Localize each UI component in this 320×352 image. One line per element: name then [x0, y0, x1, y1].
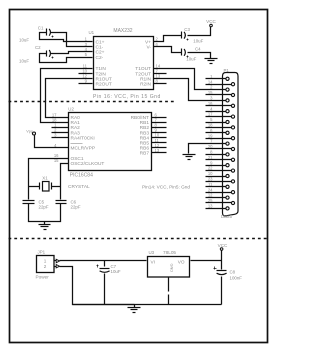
wire JP1 pin1 to regulator VI: [60, 260, 147, 262]
svg-text:RB2: RB2: [140, 125, 150, 131]
capacitor C1: [47, 29, 54, 38]
capacitor C6: [56, 201, 67, 204]
ground crystal: [39, 222, 51, 230]
C2 value label 10uF: [19, 59, 29, 64]
wire R2IN pin8 stub: [154, 83, 167, 85]
wires RB0-RB7 stubs: [152, 118, 167, 153]
svg-text:10uF: 10uF: [186, 57, 196, 62]
C3 value label 10uF: [193, 38, 203, 43]
U2 power note text: [142, 185, 190, 190]
wire crystal caps to ground: [29, 204, 61, 222]
capacitor C8: [214, 261, 227, 305]
svg-text:R2OUT: R2OUT: [96, 81, 112, 87]
crystal X1: [29, 182, 61, 192]
svg-text:10uF: 10uF: [193, 38, 203, 43]
svg-text:RA2: RA2: [71, 125, 81, 131]
JP1 designator label: [38, 250, 46, 255]
svg-text:22pF: 22pF: [71, 205, 81, 210]
svg-text:RA4/T0CKI: RA4/T0CKI: [71, 135, 95, 141]
svg-text:2: 2: [44, 264, 47, 269]
svg-text:R1IN: R1IN: [140, 76, 151, 82]
svg-text:C2+: C2+: [96, 50, 105, 56]
svg-text:25: 25: [208, 198, 213, 203]
wire RA3 stub: [52, 132, 69, 134]
svg-text:CRYSTAL: CRYSTAL: [68, 184, 90, 190]
JP1 pin 1 contact: [55, 259, 60, 262]
svg-text:PIC16C84: PIC16C84: [70, 173, 93, 179]
U3 designator label: [149, 250, 155, 255]
svg-text:X1: X1: [42, 176, 48, 181]
C6 designator label: [71, 200, 77, 205]
wire U3 GND to rail: [168, 277, 170, 305]
wire RA2 stub: [52, 127, 69, 129]
svg-text:12: 12: [208, 193, 213, 198]
VCC terminal bottom: [218, 243, 228, 250]
JP1 pin 2 contact: [55, 265, 60, 268]
wire DB25 pin 7 to ground: [189, 144, 227, 154]
wire C1 left lead to pin 1 loop: [40, 33, 93, 42]
wire T1OUT pin14 to DB25 pin 2: [154, 69, 227, 90]
svg-text:14: 14: [156, 63, 161, 68]
wire T1IN pin11 to RA1: [41, 69, 93, 123]
wire T2IN pin10 stub: [79, 73, 93, 75]
JP1 pin labels: [44, 259, 47, 269]
svg-text:19: 19: [208, 133, 213, 138]
svg-text:C7: C7: [111, 264, 117, 269]
svg-text:T1OUT: T1OUT: [135, 66, 151, 72]
svg-text:V+: V+: [145, 39, 151, 45]
svg-text:24: 24: [208, 187, 213, 192]
svg-text:RB1: RB1: [140, 120, 150, 126]
svg-text:RB6: RB6: [140, 146, 150, 152]
wire R2OUT pin9 stub: [79, 83, 93, 85]
wire C4 to ground: [188, 53, 211, 59]
C5 designator label: [39, 200, 45, 205]
connector JP1 body: [37, 256, 55, 273]
ground under C4: [205, 59, 218, 64]
C8 designator label: [230, 270, 236, 275]
svg-text:RA3: RA3: [71, 130, 81, 136]
svg-text:21: 21: [208, 155, 213, 160]
svg-text:U3: U3: [149, 250, 155, 255]
svg-text:C2: C2: [35, 45, 41, 50]
svg-text:R1OUT: R1OUT: [96, 76, 112, 82]
svg-text:V-: V-: [146, 45, 151, 51]
svg-text:15: 15: [208, 90, 213, 95]
svg-text:Vpp: Vpp: [26, 130, 33, 134]
svg-text:VCC: VCC: [218, 243, 228, 248]
capacitor C7: [97, 261, 110, 305]
svg-text:OSC2/CLKOUT: OSC2/CLKOUT: [71, 161, 105, 167]
svg-text:VO: VO: [178, 259, 185, 264]
C7 value label 10uF: [111, 269, 121, 274]
svg-text:C4: C4: [195, 46, 201, 51]
svg-text:U1: U1: [89, 30, 95, 35]
C1 designator label: [38, 25, 44, 30]
capacitor C4: [182, 49, 189, 58]
C8 value label 100nF: [230, 276, 243, 281]
svg-text:22pF: 22pF: [39, 205, 49, 210]
microcontroller U2 PIC16C84 body: [69, 113, 152, 171]
svg-text:100nF: 100nF: [230, 276, 243, 281]
svg-text:MCLR/VPP: MCLR/VPP: [71, 146, 96, 152]
U1 designator label: [89, 30, 95, 35]
svg-text:10uF: 10uF: [19, 59, 29, 64]
svg-text:C3: C3: [184, 27, 190, 32]
U1 power note text: [93, 94, 161, 100]
svg-text:17: 17: [208, 112, 213, 117]
wire VCC to VO junction: [221, 251, 223, 261]
C5 value label 22pF: [39, 205, 49, 210]
wire T2OUT pin7 stub: [154, 73, 167, 75]
VCC terminal top: [206, 19, 216, 27]
IC U1 MAX232 RS-232 driver body: [94, 37, 154, 90]
svg-text:C1+: C1+: [96, 39, 105, 45]
svg-text:DB25: DB25: [221, 214, 233, 219]
svg-text:22: 22: [208, 166, 213, 171]
wire R1IN pin13 to DB25 pin 3: [154, 79, 227, 101]
U2 designator label: [68, 107, 74, 112]
svg-text:RB4: RB4: [140, 135, 150, 141]
svg-text:Pin 16: VCC, Pin 15 Gnd: Pin 16: VCC, Pin 15 Gnd: [93, 94, 161, 100]
U1 pin name labels: [96, 39, 152, 87]
Vpp terminal: [26, 130, 35, 135]
capacitor C2: [47, 50, 54, 59]
svg-text:RB5: RB5: [140, 141, 150, 147]
svg-text:C1-: C1-: [96, 45, 104, 51]
svg-text:C1: C1: [38, 25, 44, 30]
svg-text:78L05: 78L05: [163, 250, 176, 255]
svg-text:JP1: JP1: [38, 250, 46, 255]
wire C2 left lead to pin 5 loop: [40, 54, 93, 63]
svg-text:16: 16: [208, 101, 213, 106]
U1 value label MAX232: [113, 28, 132, 34]
connector P1 pin stub wires: [206, 79, 232, 209]
U2 pin number labels: [52, 112, 160, 163]
wire R1OUT pin12 to RA0: [46, 79, 93, 118]
C6 value label 22pF: [71, 205, 81, 210]
svg-text:11: 11: [83, 63, 88, 68]
svg-text:RA1: RA1: [71, 120, 81, 126]
C4 value label 10uF: [186, 57, 196, 62]
ground at DB25 pin 7: [183, 155, 196, 160]
C4 designator label: [195, 46, 201, 51]
svg-text:10uF: 10uF: [19, 37, 29, 42]
wire OSC2 to crystal: [61, 164, 69, 200]
C7 designator label: [111, 264, 117, 269]
svg-text:GND: GND: [169, 264, 174, 273]
wire C2 right lead to pin 4: [51, 52, 93, 54]
section divider dashed line (RS232 / MCU): [9, 101, 177, 103]
svg-text:Power: Power: [36, 275, 50, 280]
svg-text:C2-: C2-: [96, 55, 104, 61]
svg-text:OSC1: OSC1: [71, 156, 84, 162]
svg-text:RA0: RA0: [71, 115, 81, 121]
C2 designator label: [35, 45, 41, 50]
capacitor C3: [182, 32, 189, 41]
svg-text:T1IN: T1IN: [96, 66, 107, 72]
connector P1 pin number labels: [208, 74, 213, 209]
svg-text:U2: U2: [68, 107, 74, 112]
capacitor C5: [23, 201, 35, 204]
X1 designator label: [42, 176, 48, 181]
svg-text:C8: C8: [230, 270, 236, 275]
regulator U3 body: [148, 257, 190, 278]
wire JP1 pin2 to ground rail: [60, 267, 135, 305]
U2 part label PIC16C84: [70, 173, 93, 179]
X1 value label CRYSTAL: [68, 184, 90, 190]
wire Vpp to MCLR pin 4: [35, 135, 69, 148]
svg-text:10: 10: [208, 171, 213, 176]
U3 pin labels: [151, 259, 185, 272]
border frame: [10, 10, 268, 343]
C1 value label 10uF: [19, 37, 29, 42]
svg-text:RB7: RB7: [140, 151, 150, 157]
svg-text:MAX232: MAX232: [113, 28, 132, 34]
C3 designator label: [184, 27, 190, 32]
U2 pin name labels: [71, 115, 150, 167]
svg-text:13: 13: [208, 204, 213, 209]
wire V- pin6 to C4: [154, 47, 182, 53]
U3 value label 78L05: [163, 250, 176, 255]
wire V+ pin2 to C3: [154, 36, 182, 42]
svg-text:23: 23: [208, 177, 213, 182]
svg-text:Pin14: VCC, Pin5: Gnd: Pin14: VCC, Pin5: Gnd: [142, 185, 190, 190]
svg-text:10uF: 10uF: [111, 269, 121, 274]
connector P1 designator label: [224, 68, 230, 73]
U1 pin number labels: [82, 37, 161, 84]
svg-text:14: 14: [208, 79, 213, 84]
wire C3 to VCC: [188, 27, 211, 36]
svg-text:11: 11: [208, 182, 213, 187]
connector P1 DB25 body: [223, 73, 239, 216]
svg-text:VI: VI: [151, 259, 155, 264]
svg-text:18: 18: [208, 123, 213, 128]
svg-text:VCC: VCC: [206, 19, 216, 24]
svg-text:RB0/INT: RB0/INT: [131, 115, 149, 121]
wire U3 VO to VCC node: [191, 260, 222, 262]
svg-text:RB3: RB3: [140, 130, 150, 136]
connector P1 pin contacts: [226, 77, 235, 210]
wire OSC1 to crystal: [29, 159, 69, 200]
svg-text:R2IN: R2IN: [140, 81, 151, 87]
svg-text:20: 20: [208, 144, 213, 149]
wire C1 right lead to pin 3: [51, 33, 93, 47]
ground rail: [73, 304, 222, 306]
ground rail symbol: [128, 305, 141, 313]
JP1 name label Power: [36, 275, 50, 280]
wire RA4 stub: [52, 137, 69, 139]
connector P1 type label DB25: [221, 214, 233, 219]
section divider dashed line (MCU / power): [9, 238, 267, 240]
